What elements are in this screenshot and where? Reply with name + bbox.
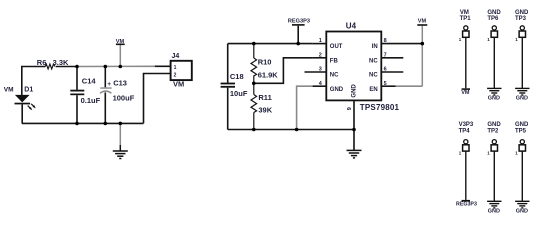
test point TP3 (GND) bbox=[515, 10, 529, 89]
LED D1 bbox=[15, 95, 36, 124]
svg-text:2: 2 bbox=[319, 52, 322, 58]
svg-text:VM: VM bbox=[173, 80, 184, 89]
svg-text:IN: IN bbox=[372, 44, 378, 50]
svg-text:6: 6 bbox=[384, 67, 387, 73]
svg-text:7: 7 bbox=[384, 52, 387, 58]
svg-text:VM: VM bbox=[418, 19, 427, 25]
power symbol VM (TP1 bottom) bbox=[461, 88, 470, 96]
svg-text:GND: GND bbox=[351, 84, 357, 98]
power symbol REG3P3 (top middle) bbox=[288, 19, 310, 44]
svg-text:GND: GND bbox=[515, 122, 529, 128]
junction node R10 top bbox=[252, 42, 256, 46]
connector J4 bbox=[155, 61, 192, 80]
pin 4 GND bbox=[313, 81, 344, 93]
power symbol REG3P3 (TP4 bottom) bbox=[456, 200, 477, 208]
ground (TP3 bottom) bbox=[515, 88, 529, 101]
pin 9 GND pad (bottom, rotated) bbox=[347, 84, 357, 111]
resistor R6 bbox=[45, 64, 55, 69]
junction node REG3P3 bbox=[296, 42, 300, 46]
svg-text:3: 3 bbox=[319, 67, 322, 73]
junction node GND route bbox=[295, 128, 299, 132]
svg-text:NC: NC bbox=[369, 73, 378, 79]
capacitor C13 (polarized) bbox=[100, 67, 112, 124]
test point TP5 (GND) bbox=[515, 122, 529, 201]
svg-text:R11: R11 bbox=[258, 93, 271, 102]
pin 5 EN bbox=[369, 81, 422, 93]
svg-text:8: 8 bbox=[384, 38, 387, 44]
svg-text:R10: R10 bbox=[258, 58, 272, 67]
svg-text:OUT: OUT bbox=[330, 44, 343, 50]
pin 3 NC bbox=[305, 67, 340, 79]
svg-text:GND: GND bbox=[515, 10, 529, 16]
wire: VM vertical (right of U4) bbox=[421, 26, 423, 86]
svg-text:C18: C18 bbox=[230, 72, 244, 81]
svg-text:J4: J4 bbox=[172, 53, 180, 60]
junction node C14 bottom bbox=[75, 122, 79, 126]
svg-text:0.1uF: 0.1uF bbox=[81, 96, 101, 105]
svg-text:9: 9 bbox=[347, 107, 353, 110]
wire: LED anode vertical and top-left corner to R6 bbox=[22, 67, 46, 96]
wire: top rail segment R6 to C14 junction bbox=[56, 66, 77, 68]
capacitor C18 bbox=[221, 44, 235, 130]
test point TP2 (GND) bbox=[487, 122, 501, 201]
IC U4 regulator TPS79801 (box) bbox=[326, 32, 381, 101]
power symbol VM (left) bbox=[116, 39, 125, 67]
ground (TP2 bottom) bbox=[487, 201, 501, 214]
junction node at VM stub bbox=[119, 65, 123, 69]
power symbol VM (right) bbox=[417, 19, 427, 26]
pin 2 FB bbox=[313, 52, 339, 64]
wire: bottom rail (middle section) bbox=[228, 129, 354, 131]
svg-text:GND: GND bbox=[488, 95, 500, 101]
wire: J4 pin 2 to bottom rail bbox=[144, 74, 171, 124]
svg-text:GND: GND bbox=[487, 10, 501, 16]
svg-text:R6: R6 bbox=[37, 58, 47, 67]
svg-text:TP1: TP1 bbox=[460, 16, 472, 22]
svg-text:1: 1 bbox=[174, 65, 177, 71]
svg-text:39K: 39K bbox=[258, 105, 272, 114]
svg-text:TP3: TP3 bbox=[515, 16, 527, 22]
svg-text:TP5: TP5 bbox=[515, 128, 527, 134]
svg-text:FB: FB bbox=[330, 58, 339, 64]
wire: bottom rail (left section) bbox=[22, 122, 144, 124]
ground (TP5 bottom) bbox=[515, 201, 529, 214]
svg-text:REG3P3: REG3P3 bbox=[456, 201, 477, 207]
svg-text:VM: VM bbox=[4, 87, 14, 94]
capacitor C14 bbox=[70, 67, 84, 124]
svg-text:TP2: TP2 bbox=[487, 128, 499, 134]
svg-text:GND: GND bbox=[516, 208, 528, 214]
svg-text:GND: GND bbox=[487, 122, 501, 128]
wire: OUT rail (U4 pin 1 to C18) bbox=[228, 43, 313, 45]
resistor R11 bbox=[251, 83, 257, 129]
junction node R11 bottom bbox=[252, 128, 256, 132]
junction node R10/R11/FB bbox=[252, 82, 256, 86]
svg-text:V3P3: V3P3 bbox=[459, 122, 474, 128]
test point TP1 (VM) bbox=[459, 10, 471, 89]
svg-text:NC: NC bbox=[330, 73, 339, 79]
svg-text:TPS79801: TPS79801 bbox=[360, 103, 400, 112]
test point TP4 (V3P3) bbox=[459, 122, 474, 200]
pin 6 NC bbox=[369, 67, 403, 79]
svg-text:2: 2 bbox=[174, 73, 177, 79]
junction node at C13 top bbox=[104, 65, 108, 69]
resistor R10 bbox=[251, 44, 257, 84]
svg-text:+: + bbox=[107, 81, 111, 88]
pin 1 OUT bbox=[313, 38, 343, 50]
wire: top rail gray C14 to J4 pin 1 bbox=[77, 65, 155, 67]
svg-text:VM: VM bbox=[116, 39, 125, 45]
ground (left section) bbox=[113, 123, 128, 158]
svg-text:D1: D1 bbox=[24, 87, 33, 94]
svg-text:TP4: TP4 bbox=[459, 128, 471, 134]
test point TP6 (GND) bbox=[487, 10, 501, 89]
svg-text:1: 1 bbox=[319, 38, 322, 44]
svg-text:5: 5 bbox=[384, 81, 387, 87]
svg-text:10uF: 10uF bbox=[230, 89, 248, 98]
svg-text:NC: NC bbox=[369, 58, 378, 64]
svg-text:61.9K: 61.9K bbox=[258, 70, 279, 79]
svg-text:GND: GND bbox=[516, 95, 528, 101]
wire: FB feedback route bbox=[254, 58, 313, 84]
junction node C13 bottom bbox=[104, 122, 108, 126]
svg-text:EN: EN bbox=[369, 87, 377, 93]
svg-text:GND: GND bbox=[330, 87, 344, 93]
junction node at C14 top bbox=[75, 65, 79, 69]
svg-text:VM: VM bbox=[460, 10, 469, 16]
svg-text:100uF: 100uF bbox=[113, 93, 135, 102]
svg-text:TP6: TP6 bbox=[487, 16, 499, 22]
svg-text:REG3P3: REG3P3 bbox=[288, 19, 310, 25]
svg-text:U4: U4 bbox=[346, 22, 357, 31]
junction node GND pad rail bbox=[352, 128, 356, 132]
junction node ground stub (left) bbox=[119, 122, 123, 126]
junction node IN/VM bbox=[421, 42, 425, 46]
wire: GND pin 4 route bbox=[297, 86, 313, 129]
ground (TP6 bottom) bbox=[487, 88, 501, 101]
ground (middle section, U4 pad) bbox=[347, 100, 362, 157]
svg-text:GND: GND bbox=[488, 208, 500, 214]
svg-text:C13: C13 bbox=[113, 78, 127, 87]
pin 7 NC bbox=[369, 52, 403, 64]
svg-text:VM: VM bbox=[461, 90, 470, 96]
svg-text:C14: C14 bbox=[82, 77, 97, 86]
pin 8 IN bbox=[372, 38, 423, 50]
